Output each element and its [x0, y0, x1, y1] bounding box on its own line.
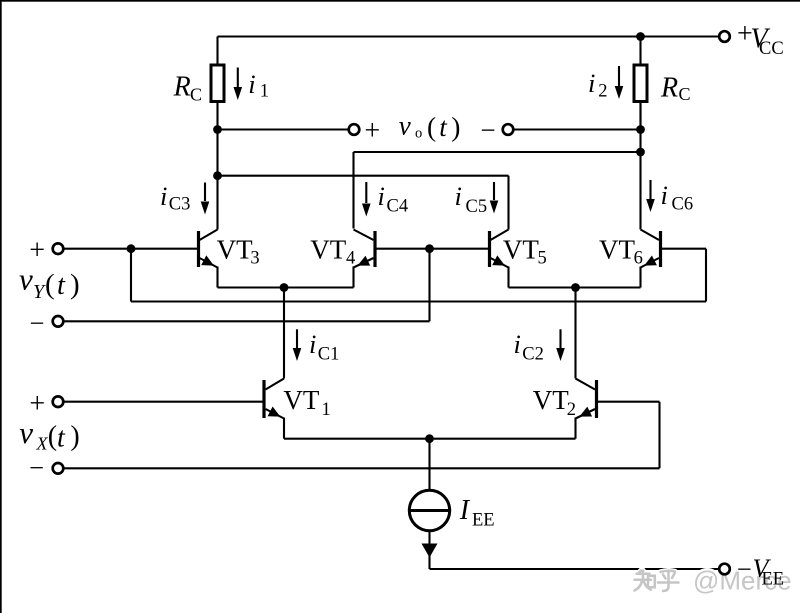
wire tail down — [428, 439, 430, 491]
node VT4-VT5 base — [425, 244, 434, 253]
svg-text:(: ( — [45, 269, 55, 301]
transistor VT6 — [641, 230, 661, 268]
svg-text:): ) — [451, 111, 460, 142]
svg-text:i: i — [661, 180, 668, 210]
svg-text:(: ( — [427, 111, 436, 142]
resistor RC1 — [211, 65, 224, 102]
svg-text:5: 5 — [538, 249, 547, 269]
wire cross base link — [131, 300, 706, 302]
svg-text:R: R — [660, 73, 678, 104]
svg-text:): ) — [70, 421, 79, 452]
label VT4 — [310, 235, 355, 269]
wire VT2 base riser — [658, 402, 660, 469]
svg-text:i: i — [588, 68, 595, 98]
label vo(t) — [399, 110, 461, 142]
arrow current i1 — [234, 68, 243, 101]
svg-text:i: i — [160, 181, 167, 211]
svg-text:): ) — [70, 269, 80, 301]
label iC5 — [455, 181, 488, 217]
svg-text:t: t — [57, 270, 66, 301]
svg-text:+: + — [364, 115, 380, 146]
svg-text:VT: VT — [599, 235, 635, 265]
svg-text:−: − — [480, 115, 495, 145]
wire VT3 emitter down — [216, 267, 218, 288]
label i1 — [248, 69, 269, 102]
wire VEE rail — [430, 568, 720, 570]
label VT6 — [599, 235, 643, 269]
wire VT4 collector to right column — [354, 151, 641, 153]
arrow current i2 — [615, 66, 624, 99]
transistor VT4 — [354, 230, 376, 268]
svg-text:2: 2 — [567, 400, 576, 420]
svg-text:C: C — [679, 84, 691, 104]
wire emitter bus VT1-VT2 — [284, 438, 576, 440]
wire vY minus riser — [428, 249, 430, 322]
label VT1 — [283, 385, 330, 420]
label vX(t) — [19, 415, 79, 454]
label IEE — [459, 495, 495, 530]
svg-text:−: − — [737, 554, 752, 584]
svg-text:R: R — [173, 71, 191, 102]
label RC2 R_C — [660, 73, 691, 104]
wire left column down — [216, 130, 218, 230]
label iC2 — [514, 329, 544, 365]
terminal vY plus — [53, 243, 64, 254]
svg-text:VT: VT — [310, 235, 346, 265]
wire rail to RC1 — [216, 37, 218, 67]
wire output left — [218, 128, 349, 130]
label VT5 — [503, 235, 547, 269]
svg-text:C5: C5 — [466, 197, 488, 217]
label -VEE — [737, 554, 784, 590]
wire vY plus to VT3 base — [63, 248, 197, 250]
wire rail to RC2 — [639, 37, 641, 67]
wire VT2 emitter down — [574, 418, 576, 439]
svg-text:C3: C3 — [169, 195, 191, 215]
wire VT5 collector to left column — [218, 175, 509, 177]
terminal vo plus — [349, 124, 360, 135]
wire vX plus to VT1 base — [63, 401, 262, 403]
label i2 — [588, 68, 608, 101]
transistor VT5 — [490, 230, 509, 268]
arrow current iC3 — [201, 183, 210, 215]
label RC1 R_C — [173, 71, 202, 104]
terminal vX minus — [53, 463, 64, 474]
wire vY minus — [63, 320, 429, 322]
label VT2 — [533, 385, 576, 420]
svg-text:i: i — [455, 181, 462, 211]
arrow current iC4 — [362, 182, 371, 217]
arrow current iC5 — [490, 182, 499, 214]
label vY(t) — [19, 262, 80, 304]
node output right — [636, 125, 645, 134]
wire VT5 collector column — [507, 176, 509, 230]
label iC6 — [661, 180, 694, 215]
wire VT6 base riser — [705, 249, 707, 302]
wire vX minus — [63, 467, 659, 469]
svg-text:−: − — [29, 453, 44, 483]
svg-text:C1: C1 — [318, 345, 340, 365]
svg-text:X: X — [36, 434, 49, 454]
label +VCC — [737, 19, 784, 59]
svg-text:1: 1 — [260, 81, 269, 101]
arrow current iC2 — [556, 329, 565, 361]
current source IEE — [409, 490, 449, 530]
svg-text:6: 6 — [634, 249, 643, 269]
watermark zhihu logo — [635, 571, 679, 592]
wire RC1 to output node — [216, 102, 218, 130]
svg-text:i: i — [378, 181, 385, 211]
terminal vY minus — [53, 316, 64, 327]
wire bus to VT2 collector — [574, 288, 576, 379]
wire VT2 base lead — [598, 401, 660, 403]
node emitter bus left — [280, 283, 289, 292]
wire bus to VT1 collector — [283, 288, 285, 379]
label VT3 — [217, 235, 260, 269]
svg-text:i: i — [248, 69, 255, 99]
svg-text:C: C — [190, 84, 202, 104]
svg-text:I: I — [459, 495, 471, 526]
wire VT4 emitter down — [352, 267, 354, 288]
svg-text:−: − — [30, 308, 45, 338]
node emitter bus right — [571, 283, 580, 292]
wire VCC rail — [218, 35, 720, 37]
node right column row2 — [636, 148, 645, 157]
svg-text:C2: C2 — [522, 345, 544, 365]
label iC1 — [309, 329, 339, 365]
wire VT6 base lead — [662, 248, 706, 250]
terminal -VEE redraw — [719, 564, 730, 575]
transistor VT3 — [199, 230, 218, 268]
arrow current iC6 — [646, 180, 655, 212]
label iC3 — [160, 181, 190, 215]
svg-text:C4: C4 — [387, 197, 409, 217]
wire branch down — [130, 249, 132, 302]
wire source down with arrow — [422, 531, 438, 569]
wire RC2 to output node — [639, 102, 641, 130]
node output left — [213, 125, 222, 134]
svg-text:EE: EE — [762, 570, 785, 590]
svg-text:(: ( — [48, 421, 57, 452]
transistor VT2 — [576, 379, 597, 419]
svg-text:i: i — [514, 329, 521, 359]
label iC4 — [378, 181, 409, 217]
wire right column down — [639, 102, 641, 230]
svg-text:4: 4 — [346, 249, 355, 269]
terminal +VCC — [719, 31, 730, 42]
node vY plus branch — [127, 244, 136, 253]
svg-text:VT: VT — [283, 385, 319, 415]
node tail junction — [425, 434, 434, 443]
wire VT4 collector column — [352, 152, 354, 229]
svg-text:v: v — [19, 262, 33, 297]
svg-text:t: t — [57, 423, 66, 454]
wire VT5 emitter down — [507, 267, 509, 288]
node VCC rail junction — [636, 32, 645, 41]
terminal vX plus — [53, 396, 64, 407]
svg-text:1: 1 — [322, 400, 331, 420]
wire VT4-VT5 base tie — [377, 248, 489, 250]
svg-text:o: o — [415, 126, 422, 142]
svg-text:VT: VT — [503, 235, 539, 265]
svg-text:v: v — [19, 415, 33, 450]
terminal vo minus — [503, 124, 514, 135]
resistor RC2 — [634, 65, 647, 102]
wire emitter bus VT5-VT6 — [509, 286, 641, 288]
wire output right — [513, 128, 640, 130]
svg-text:v: v — [399, 110, 411, 140]
wire VT1 emitter down — [283, 418, 285, 439]
arrow current iC1 — [293, 329, 302, 361]
svg-text:CC: CC — [759, 39, 784, 59]
svg-text:VT: VT — [533, 385, 569, 415]
svg-text:3: 3 — [250, 249, 259, 269]
svg-text:EE: EE — [472, 510, 495, 530]
svg-text:VT: VT — [217, 235, 253, 265]
svg-text:i: i — [309, 329, 316, 359]
wire emitter bus VT3-VT4 — [218, 286, 354, 288]
transistor VT1 — [264, 379, 284, 419]
wire VT6 emitter down — [639, 267, 641, 288]
node left column row3 — [213, 171, 222, 180]
svg-text:C6: C6 — [672, 195, 694, 215]
svg-text:2: 2 — [598, 81, 607, 101]
